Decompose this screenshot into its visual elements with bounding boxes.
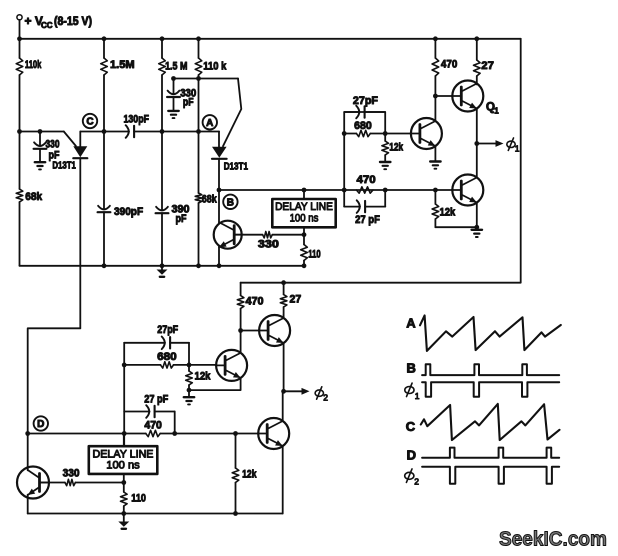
- svg-text:1.5 M: 1.5 M: [165, 61, 187, 73]
- svg-text:470: 470: [144, 420, 162, 432]
- svg-text:D: D: [407, 447, 416, 462]
- svg-text:27: 27: [481, 60, 494, 72]
- svg-text:110k: 110k: [25, 59, 42, 71]
- svg-text:470: 470: [246, 295, 264, 307]
- svg-text:C: C: [406, 419, 416, 434]
- svg-text:pF: pF: [183, 97, 194, 109]
- svg-text:330: 330: [258, 238, 279, 250]
- svg-text:CC: CC: [41, 21, 53, 30]
- svg-text:12k: 12k: [440, 206, 457, 218]
- svg-text:27: 27: [290, 294, 302, 306]
- svg-text:27pF: 27pF: [353, 95, 378, 107]
- svg-text:68k: 68k: [202, 194, 218, 206]
- svg-text:(8-15 V): (8-15 V): [54, 16, 92, 28]
- svg-text:1: 1: [494, 107, 499, 116]
- svg-text:27 pF: 27 pF: [144, 394, 168, 406]
- svg-text:D13T1: D13T1: [52, 159, 76, 171]
- svg-text:390pF: 390pF: [114, 206, 143, 218]
- svg-text:D: D: [37, 419, 44, 430]
- svg-text:470: 470: [357, 174, 376, 186]
- svg-text:SeekIC.com: SeekIC.com: [499, 528, 607, 551]
- svg-text:C: C: [86, 117, 93, 128]
- svg-text:680: 680: [157, 351, 177, 363]
- svg-text:680: 680: [354, 120, 372, 132]
- svg-text:68k: 68k: [25, 191, 43, 203]
- svg-text:B: B: [227, 198, 234, 209]
- svg-text:DELAY LINE: DELAY LINE: [93, 448, 154, 460]
- svg-text:12k: 12k: [242, 469, 257, 481]
- svg-text:2: 2: [323, 393, 328, 403]
- svg-text:330: 330: [63, 468, 80, 480]
- svg-text:27 pF: 27 pF: [355, 214, 380, 226]
- svg-text:2: 2: [414, 477, 419, 487]
- svg-text:100 ns: 100 ns: [290, 213, 319, 225]
- svg-text:1: 1: [415, 391, 420, 401]
- svg-text:A: A: [406, 315, 416, 330]
- svg-text:110: 110: [131, 492, 146, 504]
- svg-text:110: 110: [308, 248, 320, 260]
- svg-text:27pF: 27pF: [157, 324, 178, 336]
- svg-text:12k: 12k: [195, 371, 212, 383]
- svg-text:pF: pF: [176, 213, 187, 225]
- svg-text:130pF: 130pF: [124, 114, 150, 126]
- svg-text:DELAY LINE: DELAY LINE: [275, 201, 333, 213]
- svg-text:A: A: [206, 118, 213, 129]
- svg-text:100 ns: 100 ns: [106, 460, 140, 472]
- svg-text:1: 1: [515, 144, 520, 154]
- svg-text:110 k: 110 k: [203, 61, 227, 73]
- svg-text:12k: 12k: [389, 141, 404, 153]
- svg-text:B: B: [407, 360, 416, 375]
- svg-text:1.5M: 1.5M: [110, 59, 135, 71]
- svg-text:470: 470: [441, 59, 457, 71]
- svg-text:D13T1: D13T1: [224, 161, 248, 173]
